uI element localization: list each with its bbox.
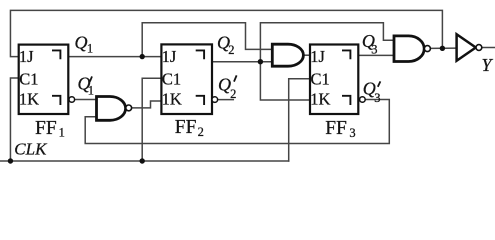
svg-text:1J: 1J: [19, 47, 34, 66]
svg-text:1J: 1J: [310, 47, 325, 66]
svg-text:1K: 1K: [162, 89, 182, 108]
postponed-output mark FF1 J-row: [52, 50, 60, 59]
svg-text:FF: FF: [35, 118, 57, 139]
svg-text:1K: 1K: [19, 89, 39, 108]
wire Q3 to NAND G3 bottom input: [358, 54, 394, 56]
svg-text:3: 3: [349, 126, 355, 140]
flip-flop FF2 box: [161, 44, 212, 114]
postponed-output mark FF2 J-row: [196, 50, 204, 59]
svg-text:2: 2: [230, 87, 236, 101]
svg-text:1: 1: [87, 42, 93, 56]
FF2 Q' bubble: [212, 97, 218, 103]
wire NAND G3 output to inverter G4: [431, 47, 457, 49]
svg-text:1: 1: [88, 84, 94, 98]
label FF2: [175, 117, 204, 139]
node junction dots: [8, 46, 445, 164]
label Q1': [78, 74, 95, 98]
nand gate G1 (below FF1): [97, 97, 126, 121]
flip-flop FF1 box: [19, 45, 69, 114]
postponed-output mark FF1 K-row: [52, 96, 60, 105]
postponed-output mark FF3 J-row: [342, 50, 350, 59]
svg-text:2: 2: [198, 125, 204, 139]
label Q3': [363, 79, 381, 106]
wire Q2 branch down to FF3 1K: [260, 62, 310, 100]
postponed-output mark FF3 K-row: [342, 96, 350, 105]
svg-text:FF: FF: [175, 117, 197, 138]
wire Q1' to NAND G1 top input: [75, 99, 97, 101]
node Q1 junction: [140, 54, 145, 59]
label Q3: [362, 31, 378, 56]
node CLK-FF2 junction: [140, 158, 145, 163]
node Q2 junction: [258, 59, 263, 64]
label FF3: [325, 118, 355, 140]
wire Q1 branch up to AND gate top input: [142, 23, 272, 57]
FF3 Q' bubble: [360, 97, 366, 103]
wire AND G2 output to FF3 1J: [303, 54, 310, 56]
flip-flop FF3 box: [310, 45, 358, 115]
label Q2': [218, 75, 237, 102]
svg-text:Q: Q: [218, 75, 231, 95]
svg-text:1J: 1J: [162, 47, 177, 66]
node CLK-FF1 junction: [8, 158, 13, 163]
svg-text:C1: C1: [162, 70, 181, 89]
label Q1: [75, 33, 94, 56]
node feedback junction at inverter input: [440, 46, 445, 51]
inverter G4 triangle: [457, 34, 476, 61]
nand gate G3 (top right): [394, 36, 424, 62]
nand gate G3 output bubble: [424, 46, 430, 52]
wire CLK to FF2 C1: [142, 78, 161, 161]
svg-text:1K: 1K: [310, 89, 330, 108]
wire Q2 branch up to NAND G3 top input: [260, 23, 394, 62]
wire Q1 from FF1 to FF2 1J: [68, 56, 161, 58]
wire CLK to FF3 C1: [289, 79, 310, 161]
wire Q2 from FF2 to AND gate bottom input: [212, 61, 272, 63]
wire feedback from NAND G3 output to FF1 1J: [10, 10, 442, 56]
svg-text:CLK: CLK: [14, 140, 48, 159]
wire Q2' stub: [218, 99, 234, 101]
svg-text:3: 3: [371, 42, 377, 56]
wire inverter output Y: [482, 47, 495, 49]
wire CLK rail: [0, 160, 289, 162]
wire CLK to FF1 C1: [10, 78, 18, 161]
inverter G4 output bubble: [476, 45, 482, 51]
label Q2: [217, 33, 234, 58]
svg-text:3: 3: [374, 91, 380, 105]
svg-text:1: 1: [59, 125, 65, 139]
svg-text:C1: C1: [311, 70, 330, 89]
svg-text:FF: FF: [325, 118, 347, 139]
FF1 Q' bubble: [69, 97, 75, 103]
label FF1: [35, 118, 65, 140]
and gate G2 (before FF3): [272, 44, 303, 66]
nand gate G1 output bubble: [126, 105, 132, 111]
svg-text:2: 2: [228, 43, 234, 57]
wire NAND G1 output to FF2 1K: [132, 101, 162, 108]
svg-text:C1: C1: [19, 70, 38, 89]
svg-text:Q: Q: [75, 33, 88, 53]
postponed-output mark FF2 K-row: [196, 96, 204, 105]
wire Q3' feedback to NAND G1 bottom input: [85, 100, 389, 144]
